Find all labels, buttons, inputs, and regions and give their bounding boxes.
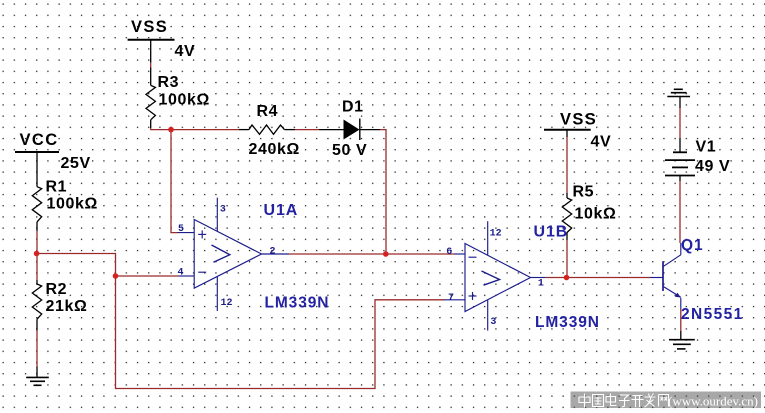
svg-text:100kΩ: 100kΩ [159,92,210,109]
svg-text:240kΩ: 240kΩ [249,141,300,158]
svg-text:25V: 25V [61,155,91,172]
svg-text:2N5551: 2N5551 [681,306,744,323]
svg-text:2: 2 [270,247,276,258]
svg-text:3: 3 [490,317,496,328]
svg-text:R2: R2 [46,281,68,298]
svg-text:49 V: 49 V [695,158,730,175]
svg-text:3: 3 [220,205,226,216]
svg-text:V1: V1 [696,139,717,156]
svg-text:12: 12 [221,298,233,309]
svg-text:R3: R3 [158,74,180,91]
svg-text:100kΩ: 100kΩ [47,196,98,213]
svg-text:VSS: VSS [131,18,168,36]
svg-text:R4: R4 [257,103,279,120]
svg-text:VSS: VSS [560,111,597,129]
svg-text:4V: 4V [591,134,612,151]
svg-text:5: 5 [178,224,184,235]
svg-text:LM339N: LM339N [535,314,600,331]
svg-text:6: 6 [446,247,452,258]
svg-text:(www.ourdev.cn): (www.ourdev.cn) [668,394,758,409]
svg-text:1: 1 [538,279,544,290]
svg-text:R1: R1 [46,179,68,196]
svg-text:7: 7 [448,293,454,304]
svg-text:D1: D1 [342,99,364,116]
svg-text:LM339N: LM339N [265,295,330,312]
svg-text:U1B: U1B [534,224,569,241]
svg-text:4V: 4V [175,43,196,60]
svg-text:R5: R5 [573,184,595,201]
svg-text:Q1: Q1 [681,237,703,254]
svg-text:21kΩ: 21kΩ [46,298,88,315]
svg-text:12: 12 [490,229,502,240]
svg-text:4: 4 [178,268,184,279]
svg-text:VCC: VCC [20,131,59,149]
svg-text:10kΩ: 10kΩ [575,206,617,223]
svg-text:U1A: U1A [264,202,299,219]
svg-text:50 V: 50 V [332,142,367,159]
